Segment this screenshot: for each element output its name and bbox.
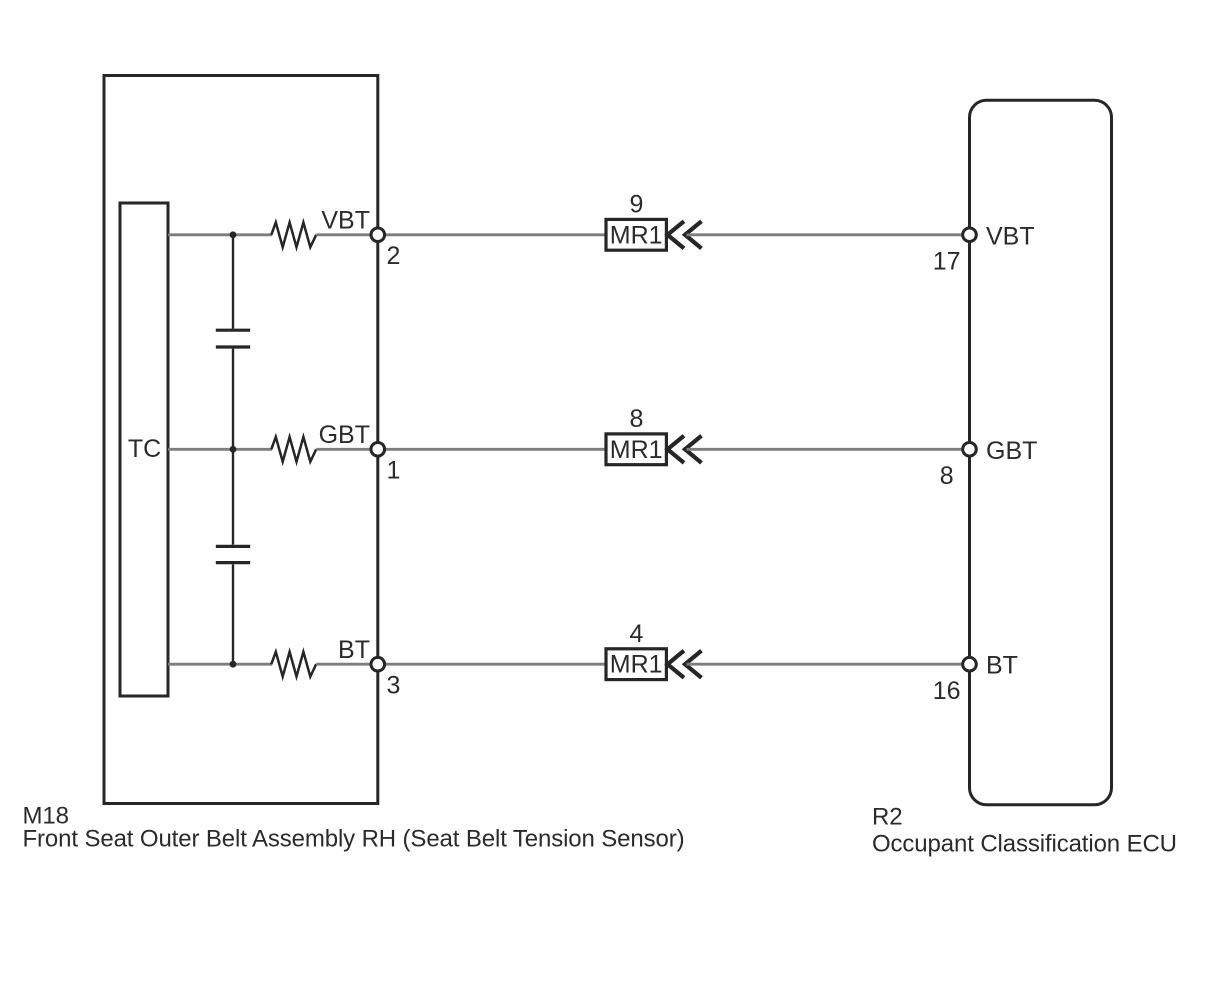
- wire MR1 to ECU row 1: [687, 233, 963, 236]
- resistor row 2: [271, 437, 316, 462]
- capacitor C1: [216, 330, 250, 347]
- connector MR1 row 3 box: [606, 649, 666, 680]
- svg-text:GBT: GBT: [319, 421, 370, 449]
- svg-text:Occupant Classification ECU: Occupant Classification ECU: [872, 831, 1177, 858]
- wire TC to resistor row 2: [168, 448, 272, 451]
- svg-text:17: 17: [933, 248, 961, 276]
- svg-text:GBT: GBT: [986, 437, 1037, 465]
- connector block M18 (Front Seat Outer Belt Assembly RH): [104, 76, 378, 804]
- svg-text:4: 4: [630, 620, 644, 648]
- svg-text:BT: BT: [338, 636, 370, 664]
- wire pin 3 to MR1 row 3: [385, 663, 605, 666]
- svg-text:2: 2: [387, 242, 401, 270]
- junction node row 2: [230, 446, 237, 453]
- svg-text:8: 8: [940, 462, 954, 490]
- pin 16 of R2: [963, 657, 977, 671]
- junction node row 3: [230, 661, 237, 668]
- wire TC to resistor row 1: [168, 233, 272, 236]
- svg-text:MR1: MR1: [610, 651, 663, 679]
- svg-text:Front Seat Outer Belt Assembly: Front Seat Outer Belt Assembly RH (Seat …: [23, 826, 685, 853]
- wire TC to resistor row 3: [168, 663, 272, 666]
- capacitor C2: [216, 546, 250, 562]
- svg-text:VBT: VBT: [986, 222, 1035, 250]
- pin 3 of M18: [371, 657, 385, 671]
- wire pin 2 to MR1 row 1: [385, 233, 605, 236]
- pin 2 of M18: [371, 228, 385, 242]
- connector arrows row 1: [668, 221, 685, 248]
- connector arrows row 2: [668, 436, 685, 463]
- ECU block R2 (Occupant Classification ECU): [970, 100, 1112, 805]
- junction node row 1: [230, 231, 237, 238]
- svg-text:MR1: MR1: [610, 436, 663, 464]
- resistor row 3: [271, 652, 316, 677]
- connector arrows row 3: [668, 651, 685, 678]
- wire resistor to pin row 3: [316, 663, 371, 666]
- svg-text:8: 8: [630, 405, 644, 433]
- svg-text:R2: R2: [872, 804, 902, 831]
- wire vertical bus through capacitors: [232, 235, 234, 329]
- svg-text:MR1: MR1: [610, 221, 663, 249]
- svg-text:VBT: VBT: [321, 207, 370, 235]
- wire resistor to pin row 1: [316, 233, 371, 236]
- svg-text:1: 1: [387, 457, 401, 485]
- pin 1 of M18: [371, 443, 385, 457]
- sensor block TC: [120, 203, 168, 696]
- pin 17 of R2: [963, 228, 977, 242]
- svg-text:TC: TC: [128, 435, 161, 463]
- wire MR1 to ECU row 2: [687, 448, 963, 451]
- svg-text:BT: BT: [986, 652, 1018, 680]
- resistor row 1: [271, 222, 316, 247]
- svg-text:16: 16: [933, 677, 961, 705]
- wire MR1 to ECU row 3: [687, 663, 963, 666]
- svg-text:3: 3: [387, 672, 401, 700]
- svg-text:9: 9: [630, 191, 644, 219]
- connector MR1 row 2 box: [606, 434, 666, 465]
- wire resistor to pin row 2: [316, 448, 371, 451]
- connector MR1 row 1 box: [606, 219, 666, 250]
- wire pin 1 to MR1 row 2: [385, 448, 605, 451]
- pin 8 of R2: [963, 443, 977, 457]
